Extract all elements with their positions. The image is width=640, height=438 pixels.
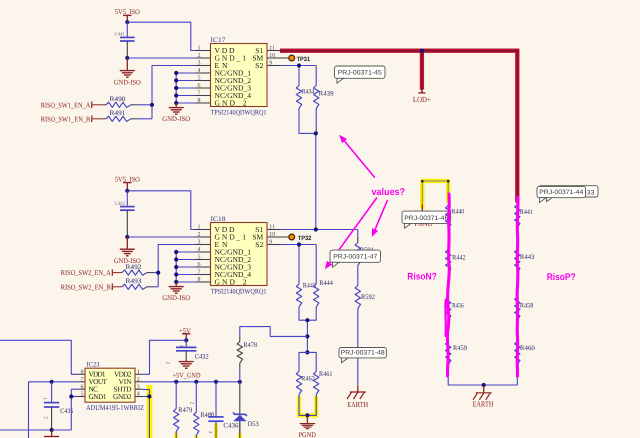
net label +5V_GND <box>173 372 201 380</box>
svg-text:GND_1: GND_1 <box>215 53 247 62</box>
resistor R490 <box>92 96 137 107</box>
svg-text:ADUM4195-1WBRIZ: ADUM4195-1WBRIZ <box>86 404 144 412</box>
svg-text:2: 2 <box>198 53 201 59</box>
annotation arrow <box>372 200 388 237</box>
annotation scribble over RisoP chain <box>516 197 520 376</box>
wire <box>357 309 359 386</box>
resistor R462 <box>296 372 315 395</box>
svg-text:R493: R493 <box>126 278 143 285</box>
svg-text:5: 5 <box>81 392 84 398</box>
svg-text:D53: D53 <box>248 421 260 428</box>
svg-text:GND_2: GND_2 <box>215 277 247 286</box>
annotation text RisoP? <box>547 272 576 283</box>
ground EARTH <box>347 386 369 409</box>
wire +5V_GND rail <box>143 381 240 383</box>
junction <box>50 380 54 384</box>
svg-text:IC23: IC23 <box>87 362 101 369</box>
ground GND-ISO <box>162 282 190 302</box>
capacitor C436 <box>207 382 239 438</box>
probe label PRJ-00371-48 <box>339 348 386 363</box>
svg-text:7: 7 <box>81 377 84 383</box>
junctions NC/GND <box>174 71 178 105</box>
junction <box>314 227 318 231</box>
svg-text:RISO_SW1_EN_A: RISO_SW1_EN_A <box>41 101 91 109</box>
svg-text:R459: R459 <box>453 345 468 352</box>
svg-text:1: 1 <box>42 397 48 400</box>
probe label PRJ-00371-45 <box>335 66 386 83</box>
svg-text:6: 6 <box>198 262 201 268</box>
junction <box>194 380 198 384</box>
power ground PGND <box>298 415 316 438</box>
net label RISO_SW1_EN_B <box>41 115 92 123</box>
highlighted wire (yellow) <box>297 395 318 416</box>
highlighted wire (yellow) PGND loop <box>420 180 450 209</box>
svg-text:2: 2 <box>198 232 201 238</box>
svg-text:3: 3 <box>198 240 201 246</box>
wire S1 net <box>280 229 358 231</box>
capacitor C441 <box>115 22 135 58</box>
wire to VDD <box>127 22 195 50</box>
junction <box>125 20 129 24</box>
svg-text:R444: R444 <box>319 280 333 287</box>
junction <box>305 413 309 417</box>
ground GND-ISO <box>114 58 141 87</box>
wire NC/GND bus <box>176 252 195 282</box>
svg-text:R479: R479 <box>178 407 193 414</box>
power 5V5_ISO (IC18) <box>115 175 140 190</box>
svg-text:R441: R441 <box>520 209 533 216</box>
junction <box>184 338 188 342</box>
svg-text:GND2: GND2 <box>113 392 132 401</box>
junction <box>50 428 54 432</box>
junction <box>305 334 309 338</box>
svg-text:6: 6 <box>81 384 84 390</box>
resistor R443 <box>296 282 316 307</box>
annotation arrow <box>339 135 375 178</box>
svg-text:RISO_SW2_EN_A: RISO_SW2_EN_A <box>61 269 112 277</box>
svg-text:4: 4 <box>137 392 140 398</box>
svg-text:1: 1 <box>198 46 201 52</box>
resistor R461 <box>314 371 333 394</box>
wire <box>357 230 359 243</box>
wire <box>484 365 518 386</box>
junction <box>314 131 318 135</box>
wire to VDD <box>127 191 195 230</box>
svg-text:1: 1 <box>137 370 140 376</box>
svg-text:R434: R434 <box>302 88 315 95</box>
svg-text:8: 8 <box>81 370 84 376</box>
resistor R592 <box>355 286 375 309</box>
resistor R458 <box>515 297 534 320</box>
ground GND-ISO <box>162 103 190 123</box>
wire <box>516 320 518 342</box>
svg-text:4: 4 <box>198 247 201 253</box>
wire to VDD2 <box>143 340 187 374</box>
wire S2 net <box>280 66 316 86</box>
svg-text:11: 11 <box>269 46 275 52</box>
svg-text:11: 11 <box>269 225 275 231</box>
resistor R460 <box>515 342 536 365</box>
wire <box>447 229 449 250</box>
capacitor C435 <box>42 382 74 430</box>
junction <box>297 242 301 246</box>
probe label PRJ-00371-47 <box>330 250 381 267</box>
svg-text:R592: R592 <box>361 294 376 301</box>
svg-text:1: 1 <box>198 225 201 231</box>
svg-text:C436: C436 <box>223 422 239 429</box>
highlighted wire (yellow) stub <box>174 432 178 438</box>
resistor R459 <box>446 342 468 365</box>
ground <box>179 362 194 369</box>
highlighted wire (yellow) stub <box>214 421 218 438</box>
net label RISO_SW1_EN_A <box>41 101 92 109</box>
svg-text:9: 9 <box>269 240 272 246</box>
svg-text:3: 3 <box>137 384 140 390</box>
resistor R491 <box>92 110 137 121</box>
svg-text:EARTH: EARTH <box>347 400 368 409</box>
probe label PRJ-00371-46 <box>402 211 451 228</box>
junction <box>305 318 309 322</box>
svg-text:R492: R492 <box>126 264 143 271</box>
wire <box>299 307 316 352</box>
junctions NC/GND <box>174 250 178 284</box>
net label RISO_SW2_EN_B <box>61 283 113 291</box>
wire <box>447 273 449 298</box>
wire ground rail <box>0 389 78 430</box>
wire <box>357 266 359 286</box>
svg-text:4: 4 <box>198 68 201 74</box>
svg-text:6: 6 <box>198 83 201 89</box>
resistor R479 <box>174 382 193 438</box>
junction <box>125 189 129 193</box>
svg-text:C432: C432 <box>195 353 210 360</box>
wire <box>516 228 518 250</box>
svg-text:-33: -33 <box>585 190 595 197</box>
probe label PRJ-00371-33 (behind) <box>538 186 598 202</box>
wire <box>516 273 518 298</box>
resistor R493 <box>112 278 153 289</box>
wire LOD+ drop <box>420 51 424 90</box>
svg-text:8: 8 <box>198 98 201 104</box>
svg-text:R439: R439 <box>319 91 335 98</box>
resistor R591 <box>355 243 374 266</box>
resistor R441 <box>515 205 533 228</box>
zener diode D53 <box>233 382 259 438</box>
resistor R440 <box>446 206 465 229</box>
svg-text:TP32: TP32 <box>298 235 312 242</box>
wire <box>137 104 152 106</box>
svg-text:R460: R460 <box>520 345 536 352</box>
svg-text:5: 5 <box>198 255 201 261</box>
svg-text:PRJ-00371-45: PRJ-00371-45 <box>338 70 382 77</box>
svg-text:2: 2 <box>43 416 49 419</box>
svg-text:9: 9 <box>269 61 272 67</box>
svg-text:R462: R462 <box>301 376 315 383</box>
wire <box>448 365 484 386</box>
junction <box>150 103 154 107</box>
resistor R480 <box>188 382 214 438</box>
resistor R443 <box>515 250 535 273</box>
net label RISO_SW2_EN_A <box>61 269 113 277</box>
resistor R434 <box>296 86 315 109</box>
junction <box>156 271 160 275</box>
svg-text:2: 2 <box>137 377 140 383</box>
svg-text:TPSI2140QDWQRQ1: TPSI2140QDWQRQ1 <box>211 288 267 296</box>
resistor R492 <box>112 264 153 275</box>
bus LOD+ thick red <box>280 49 519 203</box>
svg-text:7: 7 <box>198 91 201 97</box>
resistor R478 <box>237 327 307 382</box>
ground EARTH <box>473 385 494 408</box>
svg-text:2: 2 <box>188 402 194 405</box>
svg-text:TPSI2140QDWQRQ1: TPSI2140QDWQRQ1 <box>211 109 267 117</box>
highlighted wire (yellow) SHTD/GND2 <box>143 385 150 438</box>
svg-text:PGND: PGND <box>298 430 316 438</box>
wire <box>153 272 158 274</box>
svg-text:R490: R490 <box>110 96 127 103</box>
svg-text:GND_2: GND_2 <box>215 98 247 107</box>
junction <box>297 63 301 67</box>
svg-text:EARTH: EARTH <box>473 399 494 408</box>
probe label PRJ-00371-44 <box>537 186 586 202</box>
junction <box>174 380 178 384</box>
power port LOD+ <box>413 90 432 105</box>
IC IC23 ADUM4195-1WBRIZ <box>78 362 145 412</box>
svg-text:R478: R478 <box>243 342 258 349</box>
svg-text:IC18: IC18 <box>211 216 227 223</box>
wire NC/GND bus <box>176 73 195 103</box>
capacitor C442 <box>115 191 135 237</box>
junction <box>420 49 424 53</box>
ground GND-ISO <box>114 237 141 265</box>
wire <box>299 352 316 371</box>
resistor R439 <box>314 86 335 109</box>
junction <box>147 394 151 398</box>
svg-text:GND1: GND1 <box>89 392 107 401</box>
junction <box>305 350 309 354</box>
junction <box>238 380 242 384</box>
junction <box>125 235 129 239</box>
svg-text:2: 2 <box>164 362 170 365</box>
annotation text values? <box>372 187 406 198</box>
svg-text:S2: S2 <box>255 240 263 249</box>
annotation scribble over RisoN chain <box>445 194 449 376</box>
svg-text:PRJ-00371-48: PRJ-00371-48 <box>341 349 385 356</box>
svg-text:GND-ISO: GND-ISO <box>162 115 190 123</box>
wire <box>447 320 449 342</box>
svg-text:+5V_GND: +5V_GND <box>173 372 201 380</box>
capacitor C432 <box>164 340 209 364</box>
svg-text:8: 8 <box>198 277 201 283</box>
svg-text:2: 2 <box>207 431 213 434</box>
svg-text:10: 10 <box>269 53 275 59</box>
svg-text:10: 10 <box>269 232 275 238</box>
wire to GND_1 <box>127 57 195 59</box>
annotation arrow <box>325 198 377 270</box>
svg-text:GND-ISO: GND-ISO <box>162 294 190 302</box>
svg-text:RISO_SW2_EN_B: RISO_SW2_EN_B <box>61 283 111 291</box>
test point TP31 <box>280 55 311 63</box>
junction <box>482 383 486 387</box>
svg-text:5: 5 <box>198 76 201 82</box>
highlighted wire (yellow) stub <box>194 435 198 438</box>
IC IC18 TPSI2140QDWQRQ1 <box>195 216 280 296</box>
IC IC17 TPSI2140QDWQRQ1 <box>195 37 280 117</box>
power ground PGND (behind label) <box>415 205 433 229</box>
svg-text:R458: R458 <box>520 303 534 310</box>
svg-text:PRJ-00371-46: PRJ-00371-46 <box>404 215 448 222</box>
svg-text:LOD+: LOD+ <box>413 95 432 104</box>
annotation text RisoN? <box>407 272 437 283</box>
junction <box>125 56 129 60</box>
svg-text:PRJ-00371-47: PRJ-00371-47 <box>333 254 377 261</box>
junction <box>214 380 218 384</box>
svg-text:PRJ-00371-44: PRJ-00371-44 <box>539 189 583 196</box>
resistor R456 <box>446 297 465 320</box>
power 5V5_ISO (IC17) <box>115 8 140 22</box>
svg-text:RisoN?: RisoN? <box>407 272 437 283</box>
wire VDD1 feed <box>0 340 78 374</box>
ground GND-ISO (cut) <box>44 430 59 438</box>
resistor R442 <box>446 250 467 273</box>
svg-text:R456: R456 <box>452 302 464 309</box>
power +5V <box>179 327 191 341</box>
svg-text:R443: R443 <box>520 254 535 261</box>
svg-text:IC17: IC17 <box>211 37 227 44</box>
wire EN net <box>137 66 195 119</box>
svg-text:S2: S2 <box>255 61 263 70</box>
svg-text:GND-ISO: GND-ISO <box>114 79 141 87</box>
svg-text:7: 7 <box>198 270 201 276</box>
highlighted wire (yellow) stub <box>238 422 242 438</box>
svg-text:GND_1: GND_1 <box>215 232 247 241</box>
wire <box>299 109 316 230</box>
wire VOUT <box>29 382 78 438</box>
svg-text:R442: R442 <box>452 254 466 261</box>
svg-text:R440: R440 <box>452 209 465 216</box>
svg-text:RISO_SW1_EN_B: RISO_SW1_EN_B <box>41 115 91 123</box>
junction <box>69 394 73 398</box>
wire S2 net <box>280 245 316 285</box>
test point TP32 <box>280 234 312 242</box>
wire to GND_1 <box>127 236 195 238</box>
svg-text:TP31: TP31 <box>297 56 311 63</box>
svg-text:RisoP?: RisoP? <box>547 272 576 283</box>
resistor R444 <box>314 280 334 307</box>
svg-text:3: 3 <box>198 61 201 67</box>
svg-text:values?: values? <box>372 187 406 198</box>
svg-text:R461: R461 <box>319 371 333 378</box>
wire EN net <box>153 245 195 287</box>
